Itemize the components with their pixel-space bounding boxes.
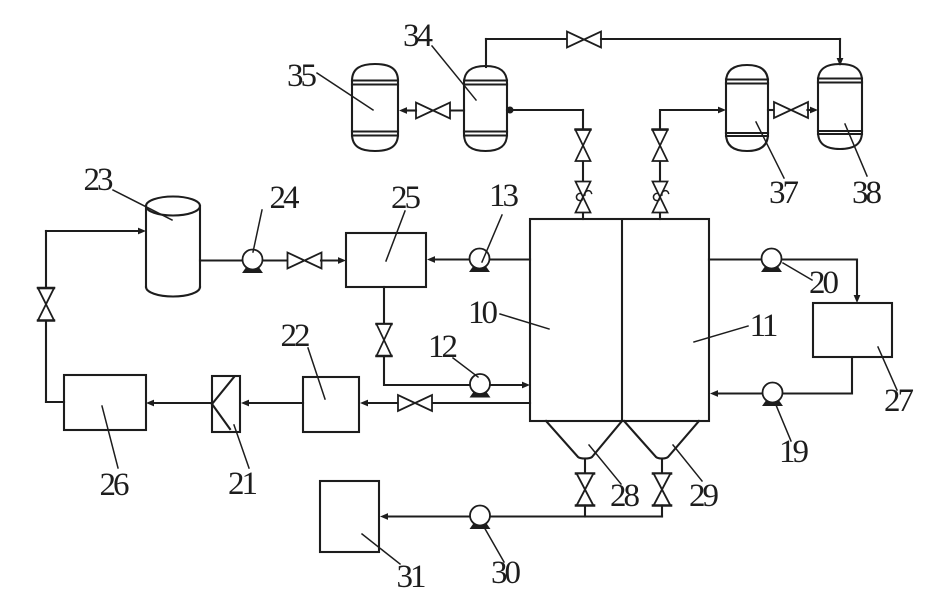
arrow into separator 21 <box>241 400 249 407</box>
svg-text:24: 24 <box>270 180 300 216</box>
wire valve28 to bottom line <box>584 506 586 517</box>
pump 19 <box>763 383 783 406</box>
wire pump24 to valve <box>263 259 288 261</box>
svg-text:23: 23 <box>84 162 114 198</box>
wire box25 down <box>383 287 385 324</box>
arrow into box 25 <box>338 257 346 264</box>
wire tank right to pump20 <box>709 258 762 260</box>
wire pump20 to box27 <box>782 260 857 296</box>
label 13 <box>482 178 519 262</box>
svg-text:38: 38 <box>852 175 882 211</box>
vessel 35 <box>352 64 398 151</box>
svg-text:28: 28 <box>610 478 640 514</box>
svg-text:29: 29 <box>689 478 719 514</box>
svg-text:10: 10 <box>468 295 498 331</box>
svg-text:35: 35 <box>287 58 317 94</box>
label 11 <box>694 308 777 344</box>
wire pump13 to box25 <box>435 258 469 260</box>
arrow into box 26 <box>146 400 154 407</box>
wire to vessel 23 <box>46 230 138 232</box>
label 25 <box>386 180 421 261</box>
valve on tank outlet line <box>398 395 432 411</box>
wire valve29 to bottom line <box>661 506 663 517</box>
svg-text:26: 26 <box>100 467 130 503</box>
wire tank out to valve <box>433 402 531 404</box>
pump 20 <box>762 249 782 272</box>
box 27 <box>813 303 892 357</box>
hopper right under tank <box>624 421 699 459</box>
arrow into vessel 38 top <box>837 58 844 66</box>
wire pump30 to box31 <box>388 515 469 517</box>
wire left riser lower <box>45 320 47 402</box>
wire vessel34 right to riser <box>507 109 583 111</box>
wire right riser into tank <box>659 213 661 219</box>
pump 30 <box>470 506 490 529</box>
wire box27 down and left to pump19 <box>783 357 852 394</box>
arrow into box 31 <box>380 513 388 520</box>
wire vessel34 top riser <box>485 39 487 67</box>
box 26 <box>64 375 146 430</box>
box 22 <box>303 377 359 432</box>
label 35 <box>287 58 373 110</box>
label 10 <box>468 295 549 331</box>
wire top header right <box>601 38 840 40</box>
separator 21 <box>212 376 240 432</box>
node junction at vessel34 right <box>507 107 514 114</box>
wire between left riser valves <box>582 162 584 182</box>
valve 28 <box>576 474 594 506</box>
wire riser left upper <box>582 110 584 129</box>
wire valve to box25 <box>321 259 338 261</box>
wire valve to vessel 38 <box>808 109 811 111</box>
label 20 <box>783 263 839 301</box>
svg-text:11: 11 <box>750 308 777 344</box>
valve below box 25 <box>376 324 391 356</box>
label 37 <box>756 122 799 211</box>
valve upper on right riser <box>652 130 667 162</box>
svg-text:20: 20 <box>809 265 839 301</box>
wire pump19 to tank <box>718 392 762 394</box>
wire between right riser valves <box>659 162 661 182</box>
label 22 <box>281 318 326 399</box>
label 27 <box>878 347 914 419</box>
label 38 <box>845 124 882 211</box>
wire vessel34 to valve <box>450 109 464 111</box>
wire valve to box22 <box>368 402 398 404</box>
hopper left under tank <box>546 421 622 459</box>
pump 12 <box>470 374 490 397</box>
svg-text:30: 30 <box>491 555 521 591</box>
wire vessel37 to valve <box>768 109 775 111</box>
label 21 <box>228 425 257 502</box>
arrow into vessel 35 <box>399 107 407 114</box>
valve 29 <box>653 474 671 506</box>
arrow into vessel 37 <box>718 107 726 114</box>
vessel 23 <box>146 197 200 297</box>
valve top header <box>567 32 601 48</box>
svg-text:31: 31 <box>397 559 426 595</box>
arrow into box 22 <box>360 400 368 407</box>
svg-text:27: 27 <box>884 383 914 419</box>
wire left riser upper <box>45 231 47 286</box>
valve between pump24 and box25 <box>288 253 322 269</box>
wire hopper29 stem <box>661 459 663 474</box>
wire box26 to left riser <box>46 401 64 403</box>
wire tank to pump13 <box>490 258 530 260</box>
label 24 <box>253 180 299 252</box>
wire valve down and right to pump12 <box>384 356 470 385</box>
svg-text:34: 34 <box>403 18 433 54</box>
reaction tank body 10/11 <box>530 219 709 421</box>
arrow into box 25 right <box>427 256 435 263</box>
vessel 38 <box>818 64 862 149</box>
label 31 <box>362 534 425 595</box>
svg-text:37: 37 <box>769 175 799 211</box>
vessel 34 <box>464 66 507 151</box>
box 31 <box>320 481 379 552</box>
label 12 <box>428 329 478 377</box>
arrow into box 27 top <box>854 295 861 303</box>
wire bottom collection line <box>491 515 662 517</box>
pump 13 <box>470 249 490 272</box>
label 30 <box>484 527 521 591</box>
valve lower on left riser <box>575 181 591 212</box>
label 28 <box>589 445 640 514</box>
wire separator21 to box26 <box>154 402 212 404</box>
wire drop to vessel 38 <box>839 39 841 59</box>
wire right riser top to vessel 37 <box>660 110 718 129</box>
arrow into tank right <box>710 390 718 397</box>
valve upper on left riser <box>575 130 590 162</box>
arrow into vessel 38 left <box>810 107 818 114</box>
wire pump12 to tank <box>490 384 522 386</box>
svg-text:21: 21 <box>228 466 257 502</box>
wire hopper28 stem <box>584 459 586 474</box>
label 26 <box>100 406 130 503</box>
arrow into tank left <box>522 382 530 389</box>
label 19 <box>776 405 809 470</box>
wire left riser into tank <box>582 213 584 219</box>
valve lower on right riser <box>652 181 668 212</box>
label 29 <box>673 445 719 514</box>
arrow into vessel 23 <box>138 228 146 235</box>
wire top header left <box>486 38 567 40</box>
svg-text:22: 22 <box>281 318 310 354</box>
wire box22 to separator 21 <box>249 402 303 404</box>
pump 24 <box>243 250 263 273</box>
svg-text:19: 19 <box>779 434 809 470</box>
valve on left riser <box>38 288 54 321</box>
label 23 <box>84 162 173 220</box>
label 34 <box>403 18 476 100</box>
valve between 34 and 35 <box>416 103 450 119</box>
box 25 <box>346 233 426 287</box>
vessel 37 <box>726 65 768 151</box>
svg-text:12: 12 <box>428 329 457 365</box>
wire valve to vessel35 <box>407 109 416 111</box>
valve between 37 and 38 <box>774 102 808 118</box>
wire vessel23 to pump24 <box>200 259 242 261</box>
svg-text:13: 13 <box>489 178 519 214</box>
